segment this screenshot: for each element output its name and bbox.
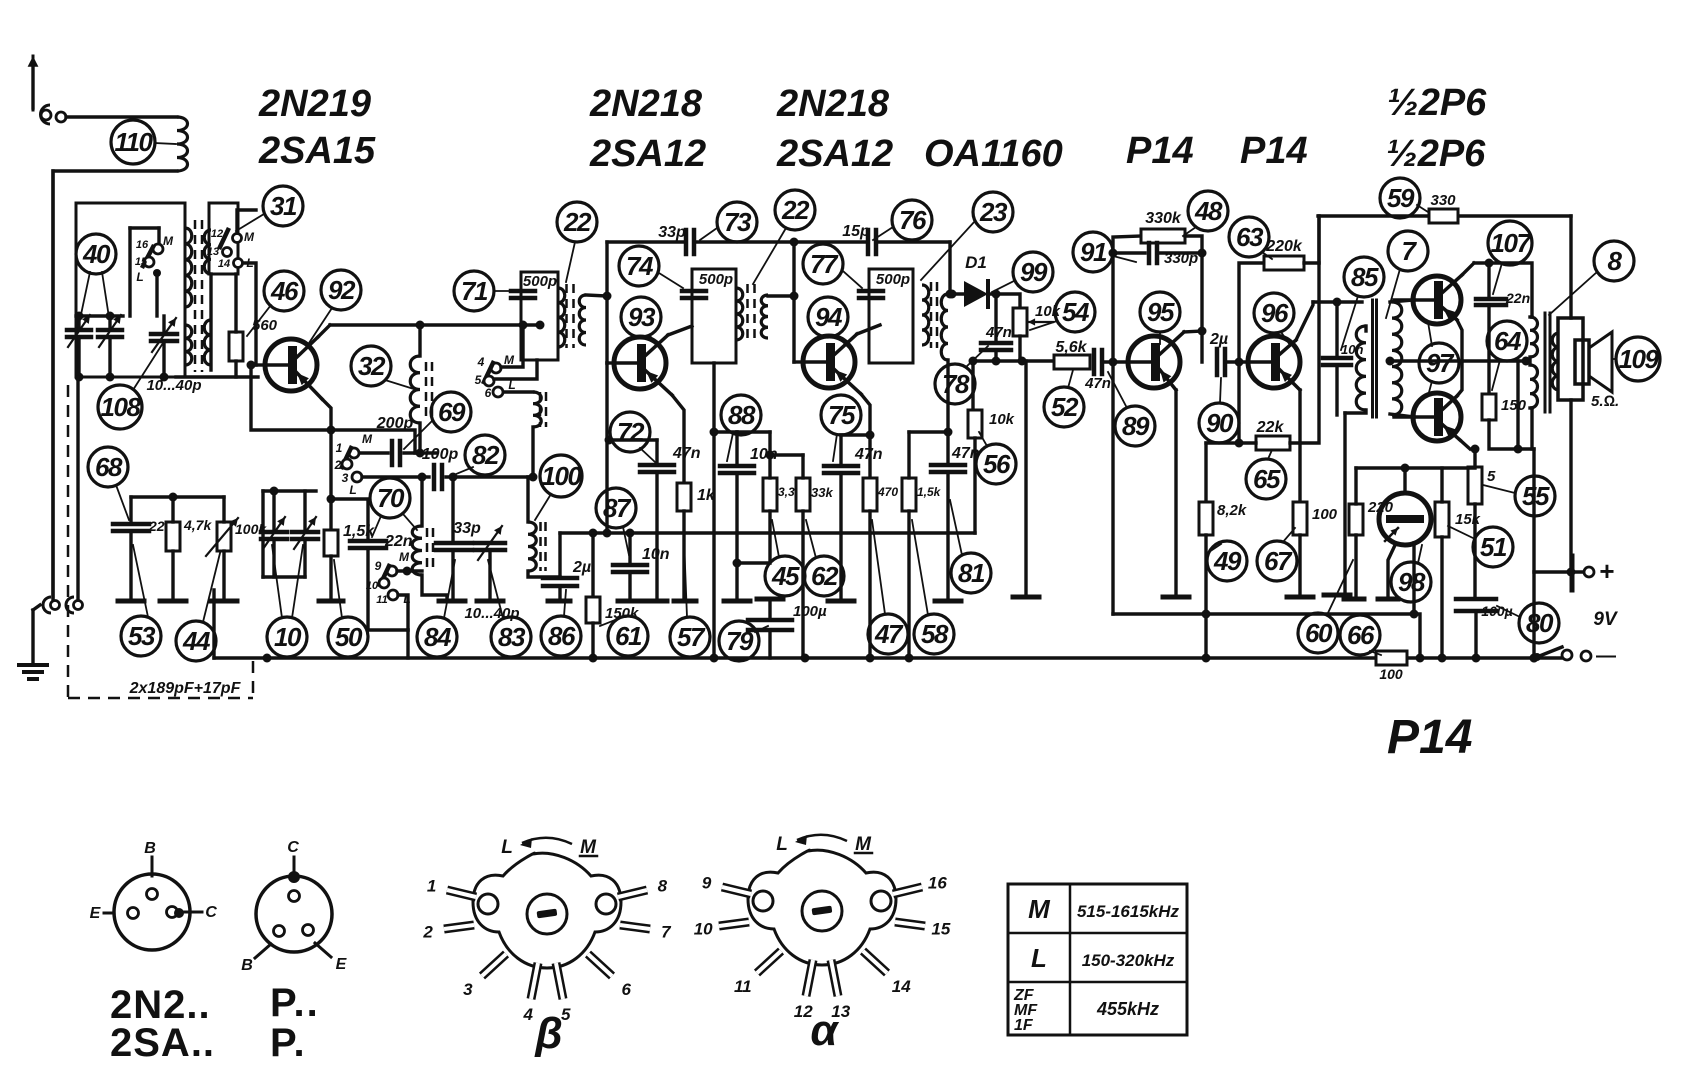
wire 10n-87 stem — [628, 533, 631, 565]
svg-text:76: 76 — [899, 205, 927, 235]
capacitor 200p — [390, 441, 395, 465]
resistor 33k — [796, 478, 810, 511]
circled 72 — [610, 412, 650, 452]
wire collector line y325 — [330, 323, 540, 326]
core dashes coil69 — [539, 392, 542, 427]
pointer 74 — [659, 273, 683, 288]
resistor 470 — [863, 478, 877, 511]
T7 secondary — [1552, 333, 1559, 390]
svg-text:2µ: 2µ — [1209, 331, 1228, 348]
svg-text:46: 46 — [270, 276, 299, 306]
wire 220 top — [1354, 468, 1357, 504]
svg-text:L: L — [501, 837, 513, 858]
circled 48 — [1188, 191, 1228, 231]
svg-text:B: B — [144, 840, 156, 857]
pointer 7 — [1386, 269, 1400, 318]
circled 76 — [892, 200, 932, 240]
circled 47 — [868, 614, 908, 654]
circled 74 — [619, 246, 659, 286]
capacitor 15p top — [866, 230, 871, 254]
svg-text:P..: P.. — [270, 981, 320, 1025]
resistor 10k 56 — [968, 410, 982, 438]
pot wiper arrow — [1028, 321, 1053, 323]
ground bar 22n-68 — [118, 599, 144, 604]
circled 80 — [1519, 603, 1559, 643]
ground bar 33p — [439, 599, 465, 604]
svg-text:84: 84 — [424, 622, 452, 652]
wire 33k bottom — [801, 511, 804, 658]
gang capacitor section b — [292, 530, 318, 535]
Q96 collector lead — [1280, 340, 1296, 354]
svg-text:10...40p: 10...40p — [146, 377, 201, 394]
circled 95 — [1140, 292, 1180, 332]
circled 55 — [1515, 476, 1555, 516]
pointer 66 — [1370, 651, 1381, 655]
svg-text:M: M — [399, 550, 410, 564]
svg-text:470: 470 — [877, 485, 898, 499]
wire 47n-78 stem — [994, 294, 997, 343]
svg-text:90: 90 — [1206, 408, 1234, 438]
svg-text:15: 15 — [135, 256, 148, 268]
speaker coil box — [1575, 340, 1589, 384]
resistor 100 rail — [1376, 651, 1407, 665]
svg-text:P14: P14 — [1387, 711, 1472, 764]
circled 62 — [804, 556, 844, 596]
wire speaker bottom drop — [1569, 400, 1572, 572]
svg-text:57: 57 — [677, 622, 706, 652]
pointer 53 — [133, 545, 148, 617]
wire 47n-72 ground — [655, 472, 658, 600]
svg-text:4: 4 — [477, 355, 485, 369]
wire bottom stub y377 — [176, 375, 258, 378]
coil 100 — [528, 522, 536, 571]
svg-text:14: 14 — [892, 977, 911, 996]
rotary switch alpha — [748, 850, 896, 965]
table frame — [1008, 884, 1187, 1035]
oscillator coil 70 — [412, 526, 422, 575]
Q7a base wire — [1394, 298, 1414, 301]
wire top corner left — [605, 242, 608, 296]
resistor 220 — [1349, 504, 1363, 535]
circled 100 — [540, 455, 582, 497]
T1 secondary winding upper — [204, 230, 211, 274]
pointer 63 — [1262, 252, 1272, 259]
pointer 55 — [1483, 485, 1515, 493]
svg-text:6: 6 — [621, 980, 631, 999]
pointer 10a — [272, 545, 282, 618]
Q93 base wire — [607, 361, 614, 364]
pointer 22 second — [753, 228, 786, 284]
pointer 59 — [1417, 205, 1428, 212]
pointer 65 — [1268, 450, 1272, 459]
svg-text:54: 54 — [1062, 297, 1090, 327]
T7 primary upper — [1530, 317, 1538, 357]
svg-text:M: M — [244, 230, 255, 244]
capacitor 47n 81 — [931, 463, 965, 468]
svg-text:33p: 33p — [453, 520, 481, 537]
ground bar 10n-88 — [724, 599, 750, 604]
Q95 collector lead — [1160, 332, 1184, 354]
svg-text:89: 89 — [1122, 411, 1150, 441]
resistor 150 — [1482, 394, 1496, 420]
transistor Q7b (output lower) — [1413, 393, 1461, 441]
wire T6 primary bottom — [1345, 410, 1366, 413]
wire T6 sec top to Q7a — [1390, 300, 1414, 302]
Q94 base wire — [794, 360, 803, 363]
svg-text:L: L — [136, 270, 143, 284]
wire Q98 right lead down — [1412, 543, 1415, 614]
pointer 49 — [1209, 544, 1221, 552]
wire 100 ground — [1298, 535, 1301, 596]
dashed box left side — [67, 385, 70, 698]
svg-text:500p: 500p — [523, 273, 557, 290]
Q7a collector lead — [1443, 275, 1462, 292]
resistor 1.5k second — [902, 478, 916, 511]
Q96 emitter lead — [1280, 370, 1300, 390]
wire 100p right — [446, 475, 533, 478]
wire gang tops — [263, 489, 316, 492]
table row line 2 — [1008, 981, 1187, 984]
pointer 40b — [102, 272, 110, 324]
Q7b emitter lead — [1443, 425, 1460, 440]
pointer 109 — [1613, 358, 1616, 360]
svg-text:L: L — [1031, 943, 1047, 973]
coil 69 right — [533, 392, 541, 427]
wire Q98 top — [1403, 468, 1406, 493]
Q95 emitter lead — [1160, 370, 1176, 390]
svg-text:220k: 220k — [1265, 238, 1303, 255]
svg-text:2SA15: 2SA15 — [258, 130, 376, 172]
wire 47n-81 ground — [946, 472, 949, 600]
resistor 8.2k — [1199, 502, 1213, 535]
circled 98 — [1391, 562, 1431, 602]
circled 46 — [264, 271, 304, 311]
wire 200p left to switch M — [360, 451, 388, 454]
IF can T3 box — [521, 272, 558, 360]
circled 68 — [88, 447, 128, 487]
battery plate — [1570, 556, 1575, 590]
resistor 330 — [1429, 209, 1458, 223]
wire Q95 emitter down — [1174, 390, 1177, 596]
variable capacitor 40a — [67, 328, 91, 333]
svg-text:45: 45 — [771, 561, 800, 591]
svg-text:9V: 9V — [1593, 609, 1618, 630]
pointer 95 — [1159, 332, 1161, 344]
svg-text:M: M — [362, 432, 373, 446]
switch contact 12M — [233, 234, 242, 243]
svg-text:M: M — [1028, 894, 1051, 924]
svg-text:22: 22 — [781, 195, 810, 225]
switch contact 3 — [352, 472, 362, 482]
pointer 80 — [1497, 606, 1520, 617]
wire jack to ground — [31, 610, 34, 663]
Q92 collector lead — [297, 337, 318, 357]
ground bar 100 — [1287, 595, 1313, 600]
pointer 87 — [623, 527, 629, 555]
pointer 23 — [921, 221, 975, 280]
gang capacitor section a — [261, 530, 287, 535]
wire T6 bottom ground — [1343, 413, 1346, 594]
Q94 emitter lead — [835, 370, 861, 394]
svg-text:67: 67 — [1264, 546, 1293, 576]
svg-text:P14: P14 — [1240, 130, 1308, 172]
svg-text:½2P6: ½2P6 — [1387, 82, 1487, 124]
trimmer capacitor 108 — [151, 332, 177, 337]
T6 secondary coil — [1392, 302, 1402, 415]
pointer 56 — [979, 432, 987, 446]
svg-text:P14: P14 — [1126, 130, 1194, 172]
wire left rail to jack — [51, 171, 54, 600]
capacitor 10n 87 — [613, 563, 647, 568]
circled 81 — [951, 553, 991, 593]
svg-text:200p: 200p — [376, 415, 414, 432]
rotary switch beta — [473, 853, 621, 968]
pointer 58 — [912, 520, 928, 615]
wire jack to coil 110 — [66, 115, 177, 118]
circled 40 — [76, 234, 116, 274]
circled 96 — [1254, 293, 1294, 333]
svg-text:22n: 22n — [1505, 290, 1530, 306]
core dashes coil100 — [539, 522, 542, 571]
bias feed line y614 — [1113, 614, 1420, 658]
switch contact 14L — [234, 259, 243, 268]
pointer 81 — [950, 500, 962, 555]
svg-text:81: 81 — [958, 558, 985, 588]
transistor Q94 (2nd IF amp) — [803, 336, 855, 388]
antenna jack contacts — [41, 110, 51, 120]
capacitor 33p osc — [436, 541, 472, 546]
pinout 2N2 pin C — [167, 907, 178, 918]
pointer 83 — [488, 560, 503, 618]
wire T6 primary top — [1364, 326, 1367, 331]
pinout 2N2 pin B — [147, 889, 158, 900]
svg-text:2N218: 2N218 — [589, 83, 703, 125]
circled 63 — [1229, 217, 1269, 257]
earphone jack hooks — [43, 597, 51, 613]
svg-text:40: 40 — [82, 239, 111, 269]
svg-text:70: 70 — [377, 483, 405, 513]
wire y430 to 200p — [331, 430, 415, 453]
circled 85 — [1344, 257, 1384, 297]
Q94 collector lead — [835, 334, 857, 354]
svg-text:94: 94 — [815, 302, 843, 332]
detector out line y361 — [972, 359, 1054, 362]
transistor Q96 (driver) — [1248, 336, 1300, 388]
capacitor 22n 68-group — [113, 522, 149, 527]
circled 53 — [121, 616, 161, 656]
box antenna secondary — [209, 203, 238, 274]
table row line 1 — [1008, 932, 1187, 935]
svg-text:330k: 330k — [1145, 210, 1182, 227]
wire 10k-56 drop — [971, 361, 974, 410]
wire 1.5k to ground — [329, 556, 332, 600]
circled 56 — [976, 444, 1016, 484]
wire down to rail — [406, 630, 409, 658]
Q7a emitter lead — [1443, 308, 1457, 320]
pointer 60 — [1327, 560, 1353, 615]
svg-text:2N218: 2N218 — [776, 83, 890, 125]
switch lever 12 — [220, 230, 228, 247]
svg-text:74: 74 — [626, 251, 654, 281]
circled 109 — [1616, 337, 1660, 381]
wire contact5 left to T3 box — [494, 360, 537, 379]
wire 150 bottom — [1489, 420, 1534, 449]
svg-text:9: 9 — [702, 874, 712, 893]
T7 primary lower — [1530, 365, 1538, 408]
pointer 76 — [873, 227, 893, 240]
svg-text:5.Ω.: 5.Ω. — [1591, 393, 1619, 410]
circled 71 — [454, 271, 494, 311]
wire 3.3k bottom — [737, 511, 770, 563]
switch contact 10 — [379, 578, 389, 588]
switch lever 9 — [380, 566, 389, 585]
pinout P pin C — [289, 891, 300, 902]
wire T7 primary mid — [1528, 357, 1531, 365]
wire 8.2k ground — [1204, 535, 1207, 658]
pinout P circle — [256, 876, 332, 952]
circled 23 — [973, 192, 1013, 232]
transistor Q98 (bias) — [1379, 493, 1431, 545]
wire coil32 top — [418, 325, 421, 356]
svg-text:47n: 47n — [951, 445, 980, 462]
wire coil32 bottom — [418, 423, 421, 453]
wire tap to 22n — [331, 499, 368, 541]
wire 1.5k2 top — [907, 432, 910, 478]
T6 core lines — [1371, 300, 1374, 417]
svg-text:11: 11 — [734, 977, 752, 996]
switch15 dot — [153, 269, 161, 277]
pointer 45 — [772, 520, 779, 557]
pointer 44 — [203, 545, 222, 622]
svg-text:9: 9 — [375, 559, 382, 573]
circled 32 — [351, 346, 391, 386]
circled 89 — [1115, 406, 1155, 446]
dashed box bottom — [68, 697, 253, 700]
wire 22n bottom — [368, 548, 408, 630]
circled 97 — [1419, 343, 1459, 383]
svg-text:96: 96 — [1261, 298, 1289, 328]
speaker cone — [1589, 332, 1612, 392]
svg-text:47n: 47n — [672, 445, 701, 462]
wire Q7a collector top — [1474, 263, 1532, 317]
pointer 97a — [1428, 322, 1432, 346]
wire plus terminal — [1534, 570, 1584, 573]
svg-text:66: 66 — [1347, 620, 1375, 650]
svg-text:53: 53 — [128, 621, 156, 651]
switch contact 5 — [484, 376, 494, 386]
wire T6 sec bottom to Q7b — [1390, 414, 1414, 417]
ground bar 47n-75 — [828, 599, 854, 604]
capacitor 100u 80 — [1456, 597, 1496, 602]
circled 88 — [721, 395, 761, 435]
svg-text:150-320kHz: 150-320kHz — [1082, 951, 1175, 970]
svg-text:E: E — [90, 905, 102, 922]
speaker frame — [1558, 318, 1583, 400]
circled 52 — [1044, 387, 1084, 427]
core dashes coil70 — [426, 528, 429, 573]
svg-text:91: 91 — [1080, 237, 1107, 267]
Q92 emitter lead — [297, 373, 322, 399]
resistor 1k Q93 emitter — [677, 483, 691, 511]
pointer 67 — [1283, 528, 1295, 542]
pinout P pin E — [303, 925, 314, 936]
transistor Q95 (AF preamp) — [1128, 336, 1180, 388]
svg-text:92: 92 — [328, 275, 356, 305]
wire 3.3k top — [768, 432, 771, 478]
svg-text:6: 6 — [485, 386, 492, 400]
wire 560 top — [234, 274, 237, 332]
svg-text:95: 95 — [1147, 297, 1175, 327]
wire L contact to base — [243, 263, 256, 365]
svg-text:31: 31 — [270, 191, 297, 221]
svg-text:85: 85 — [1351, 262, 1379, 292]
chassis ground symbol — [19, 663, 47, 667]
ground bar 1.5k — [319, 599, 343, 604]
circled 31 — [263, 186, 303, 226]
svg-text:69: 69 — [438, 397, 466, 427]
Q96 collector line — [1313, 300, 1362, 303]
resistor 150k — [586, 597, 600, 623]
svg-text:100: 100 — [1312, 506, 1338, 523]
table divider vertical — [1069, 884, 1072, 1035]
svg-text:12: 12 — [211, 228, 223, 240]
svg-text:5: 5 — [1487, 468, 1496, 485]
svg-text:99: 99 — [1020, 257, 1048, 287]
svg-text:1F: 1F — [1014, 1017, 1034, 1034]
T7 core lines — [1544, 313, 1547, 412]
svg-text:79: 79 — [726, 626, 754, 656]
wire 560 bottom — [234, 361, 237, 377]
resistor 330k — [1141, 229, 1185, 243]
circled 59 — [1380, 178, 1420, 218]
svg-text:3: 3 — [342, 471, 349, 485]
svg-text:22n: 22n — [384, 533, 413, 550]
pointer 79 — [755, 626, 768, 632]
switch contact 16/M — [153, 244, 163, 254]
wire M contact up — [237, 210, 256, 233]
wire 8.2k hang — [1206, 441, 1239, 444]
wire 2u to Q96 — [1225, 360, 1248, 363]
antenna jack hook — [41, 105, 51, 124]
wire 22n stem — [1487, 263, 1490, 299]
IF can T4 box — [692, 269, 736, 363]
T5 core dashes — [930, 282, 933, 348]
resistor 560 — [229, 332, 243, 361]
transistor Q92 (mixer) — [265, 339, 317, 391]
svg-text:8: 8 — [1608, 246, 1623, 276]
wire T4 box bottom drop — [712, 363, 715, 658]
wire coil70 top — [420, 477, 423, 526]
T1 secondary winding lower — [204, 320, 211, 365]
svg-text:107: 107 — [1491, 228, 1533, 258]
wire T3 drop long — [605, 363, 608, 533]
diode D1 — [964, 281, 988, 307]
svg-text:2SA12: 2SA12 — [589, 133, 706, 175]
svg-text:15k: 15k — [1455, 511, 1481, 528]
wire Q96 emitter resistor — [1298, 390, 1301, 502]
svg-text:M: M — [163, 234, 174, 248]
wire T5 secondary top to diode — [948, 292, 964, 295]
pointer 52 — [1068, 370, 1073, 388]
svg-text:71: 71 — [461, 276, 488, 306]
circled 73 — [717, 202, 757, 242]
pointer 75 — [833, 434, 837, 461]
svg-text:80: 80 — [1526, 608, 1554, 638]
svg-text:2SA..: 2SA.. — [110, 1021, 215, 1065]
T1 primary winding lower — [185, 325, 192, 365]
svg-text:1: 1 — [336, 441, 343, 455]
capacitor 22n osc — [350, 539, 386, 544]
